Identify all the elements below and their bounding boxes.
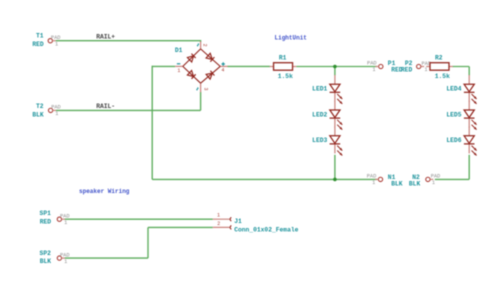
svg-text:R1: R1 [279, 55, 287, 62]
bridge pin 2 AC mark [197, 44, 198, 47]
pad N2 [426, 177, 434, 181]
svg-text:PAD: PAD [367, 61, 377, 67]
svg-text:LED2: LED2 [312, 111, 327, 118]
wire R1 to junction and pad P1 [296, 66, 377, 68]
svg-text:SP2: SP2 [40, 250, 52, 257]
bridge pin 1 minus mark [177, 63, 180, 65]
pin name/number of SP1 [60, 214, 70, 226]
pad T1 [48, 39, 56, 43]
svg-text:Conn_01x02_Female: Conn_01x02_Female [234, 226, 298, 233]
LED LED1 [330, 75, 343, 104]
svg-text:PAD: PAD [367, 174, 377, 180]
wire LED6 to pad N2 [435, 155, 469, 180]
svg-text:PAD: PAD [60, 252, 70, 258]
svg-text:LED6: LED6 [446, 137, 461, 144]
svg-text:RED: RED [40, 218, 52, 225]
svg-text:1: 1 [372, 67, 375, 73]
LED LED4 [464, 75, 477, 104]
LED LED5 [464, 101, 477, 130]
pin name/number of T2 [51, 105, 61, 117]
svg-text:SP1: SP1 [40, 210, 52, 217]
svg-text:3: 3 [203, 87, 209, 90]
connector J1 pin 1 [213, 217, 232, 221]
svg-text:PAD: PAD [60, 214, 70, 220]
svg-text:4: 4 [221, 68, 224, 74]
LED LED2 [330, 101, 343, 130]
wire RAIL+ from T1 to bridge pin 2 [56, 40, 201, 42]
svg-text:R2: R2 [435, 55, 443, 62]
wire SP2 to J1 pin 2 [65, 227, 213, 258]
svg-text:1.5k: 1.5k [435, 73, 450, 80]
bridge pin 3 AC mark [197, 88, 198, 91]
svg-text:RED: RED [32, 41, 44, 48]
svg-text:1: 1 [64, 220, 67, 226]
pad T2 [48, 108, 56, 112]
svg-text:BLK: BLK [32, 111, 44, 118]
wire RAIL- from T2 to bridge pin 3 [56, 109, 201, 111]
svg-text:BLK: BLK [391, 181, 403, 188]
svg-text:BLK: BLK [409, 181, 421, 188]
bridge pin 4 plus mark [222, 62, 225, 65]
svg-text:2: 2 [202, 44, 208, 47]
pin name/number of P1 [367, 61, 377, 74]
svg-text:2: 2 [217, 221, 220, 227]
svg-text:LED1: LED1 [312, 86, 327, 93]
svg-text:LightUnit: LightUnit [275, 35, 308, 42]
wire junction to LED1 [334, 67, 336, 76]
svg-text:RED: RED [401, 67, 413, 74]
connector J1 pin 2 [213, 226, 232, 230]
svg-text:T2: T2 [36, 103, 44, 110]
svg-text:RAIL-: RAIL- [96, 103, 115, 110]
pad SP1 [57, 217, 65, 221]
LED LED6 [464, 127, 477, 156]
pad N1 [375, 177, 383, 181]
svg-text:1: 1 [424, 67, 427, 73]
svg-text:PAD: PAD [51, 35, 61, 41]
wire SP1 to J1 pin 1 [65, 218, 213, 220]
junction bottom of LED string [333, 178, 337, 182]
svg-text:T1: T1 [36, 33, 44, 40]
wire bridge minus output to left vertical [152, 65, 175, 67]
LED LED3 [330, 127, 343, 156]
svg-text:LED5: LED5 [446, 111, 461, 118]
pad SP2 [57, 256, 65, 260]
pin name/number of P2 [422, 61, 432, 73]
junction top of LED string [333, 65, 337, 69]
pin name/number of SP2 [60, 252, 70, 264]
resistor R2 [426, 63, 453, 70]
pad P2 [417, 64, 425, 68]
pin name/number of T1 [51, 35, 61, 47]
wire LED3 to bottom rail [334, 155, 336, 180]
svg-text:1.5k: 1.5k [278, 73, 293, 80]
svg-text:1: 1 [55, 111, 58, 117]
pad P1 [375, 64, 383, 68]
svg-text:1: 1 [432, 180, 435, 186]
pin name/number of N2 [431, 174, 441, 186]
svg-text:PAD: PAD [51, 105, 61, 111]
svg-text:1: 1 [64, 259, 67, 265]
svg-text:LED3: LED3 [312, 137, 327, 144]
svg-text:LED4: LED4 [446, 86, 461, 93]
svg-text:RAIL+: RAIL+ [96, 34, 115, 41]
svg-text:1: 1 [177, 68, 180, 74]
svg-text:1: 1 [217, 212, 220, 218]
svg-text:BLK: BLK [40, 258, 52, 265]
svg-text:D1: D1 [175, 47, 183, 54]
wire R2 to LED4 [452, 67, 469, 76]
resistor R1 [270, 63, 297, 70]
wire bridge plus output to R1 [227, 65, 270, 67]
svg-text:1: 1 [55, 41, 58, 47]
diode bridge D1 [175, 41, 227, 92]
svg-text:speaker Wiring: speaker Wiring [79, 188, 130, 195]
svg-text:1: 1 [372, 180, 375, 186]
wire bottom rail [152, 178, 377, 180]
wire left vertical down [151, 66, 153, 180]
pin name/number of N1 [367, 174, 377, 187]
svg-text:PAD: PAD [431, 174, 441, 180]
svg-text:J1: J1 [234, 218, 242, 225]
wire bridge pin 3 vertical [200, 92, 202, 110]
